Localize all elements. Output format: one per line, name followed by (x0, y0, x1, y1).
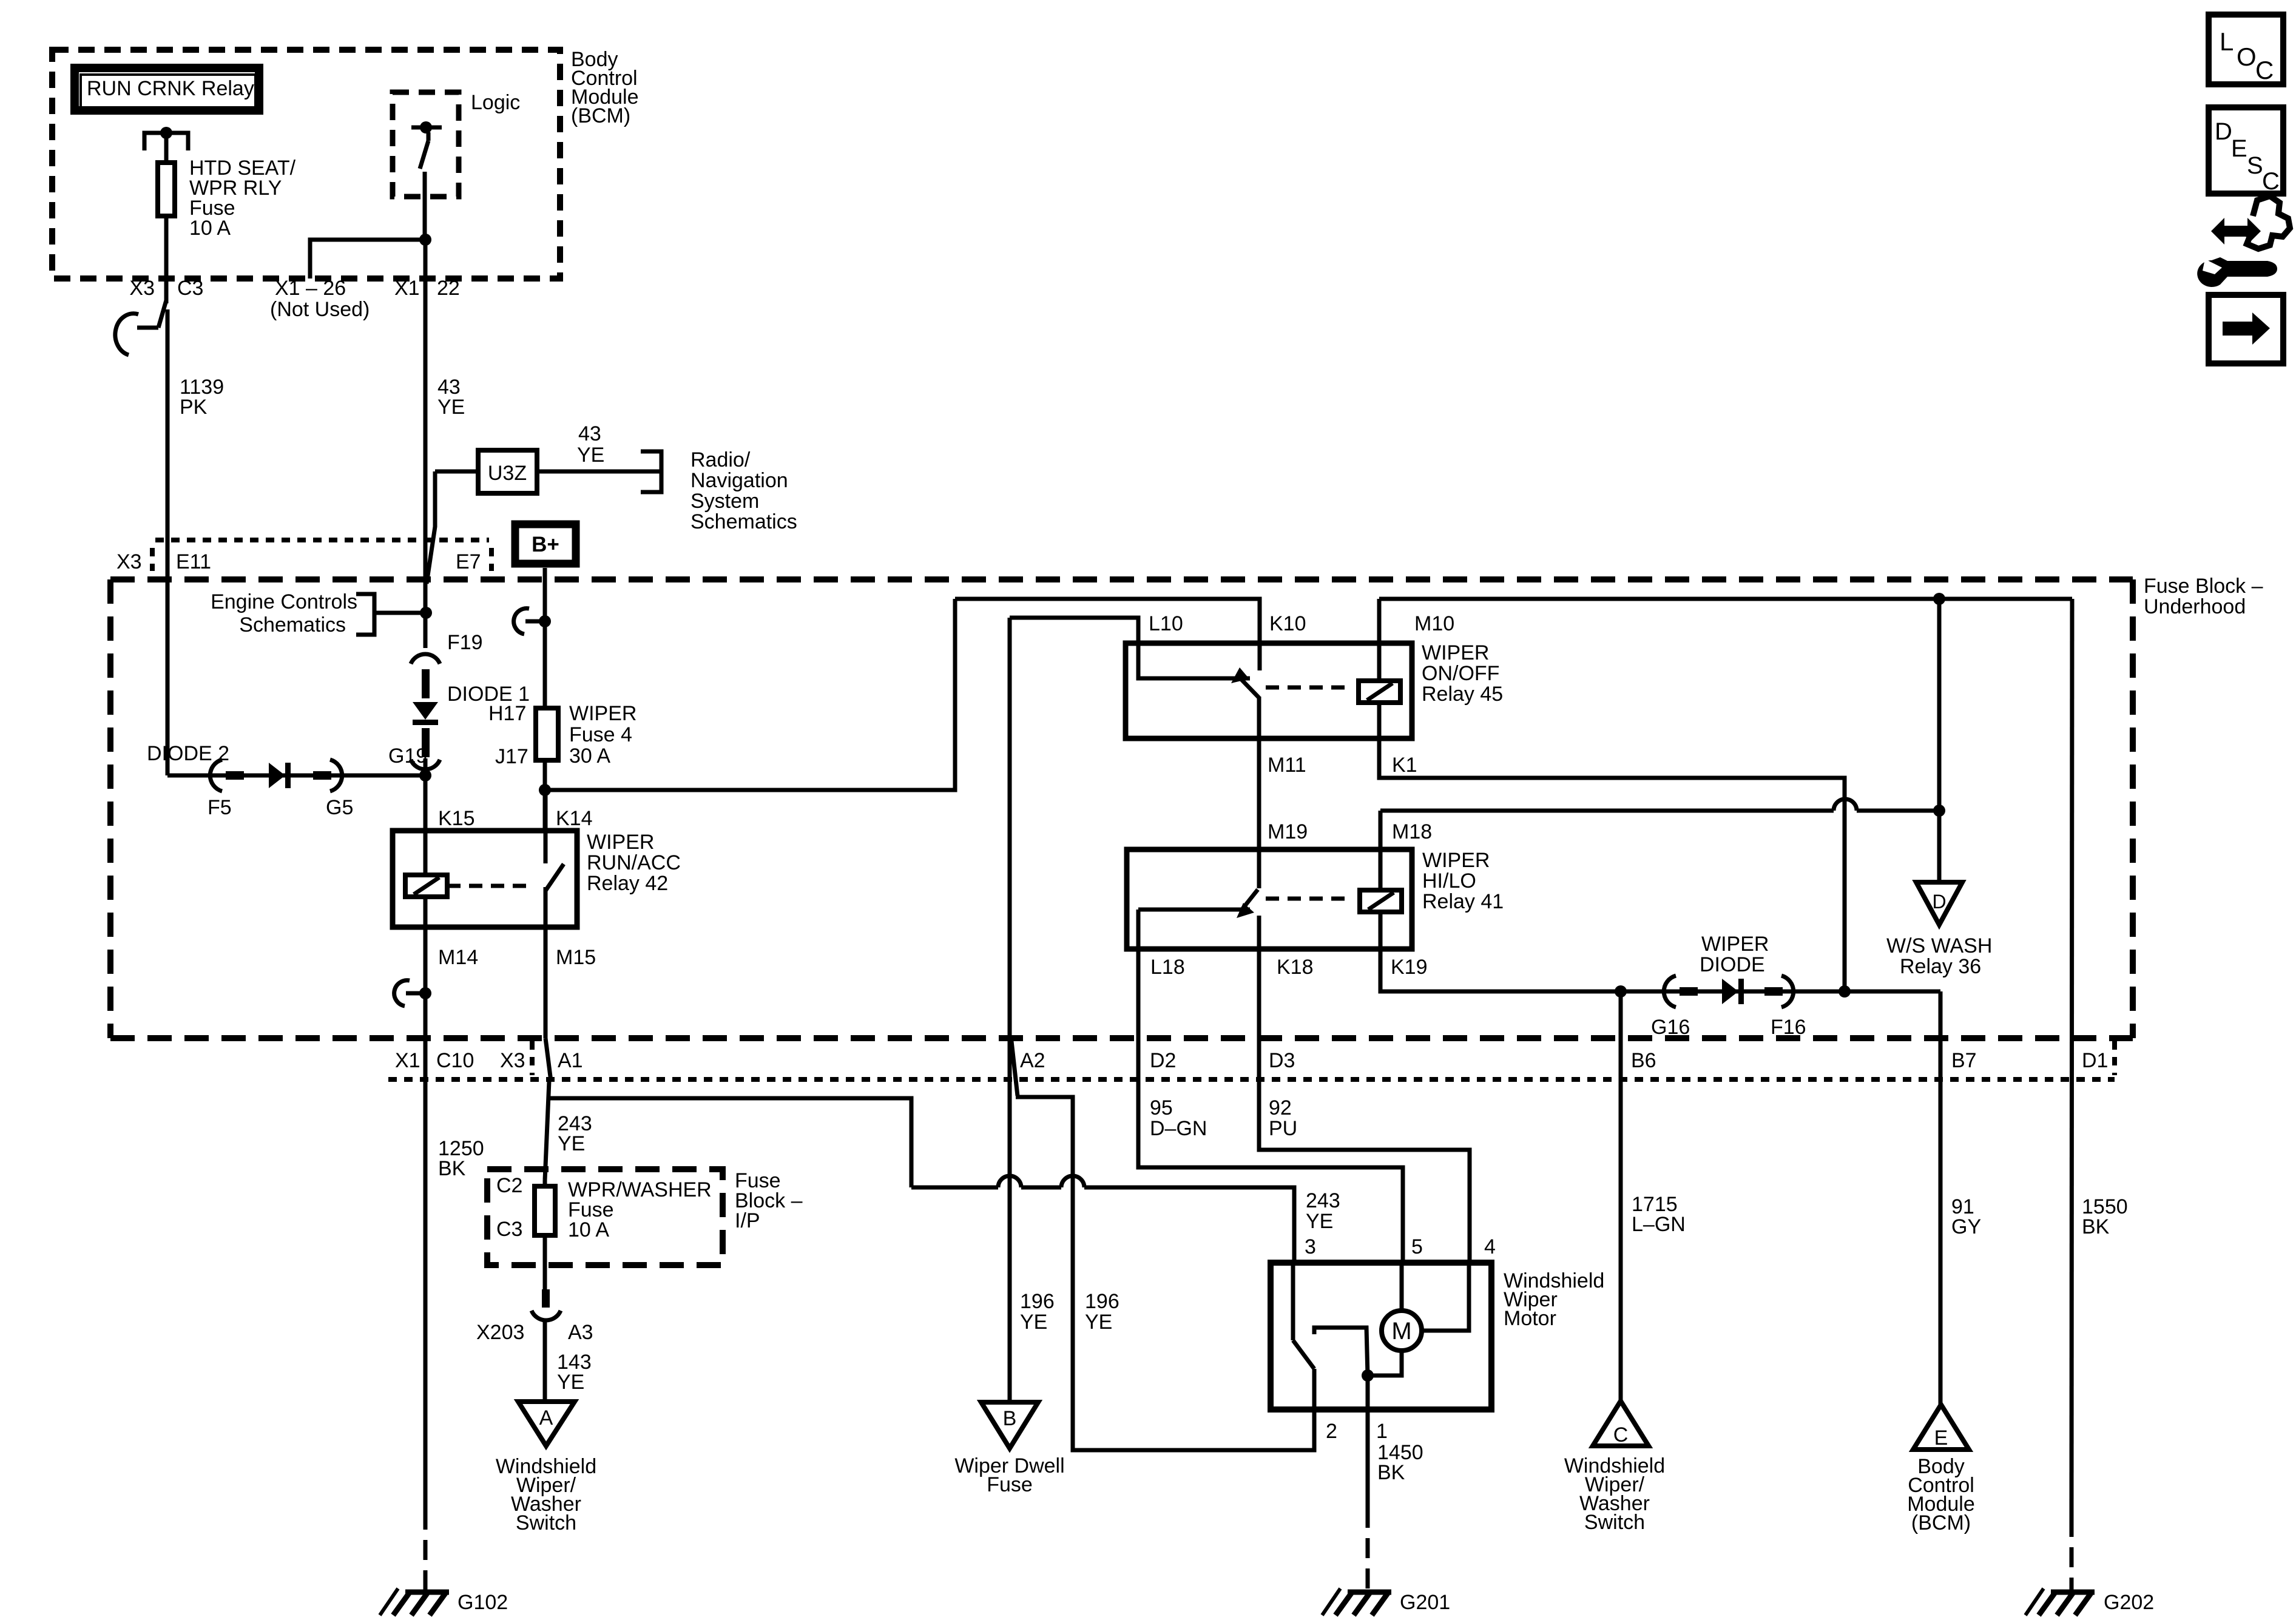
connector X3/C3 symbol (115, 300, 166, 355)
svg-text:K18: K18 (1277, 956, 1314, 979)
node K14 junction (539, 784, 551, 796)
svg-text:M: M (1391, 1318, 1411, 1345)
node A triangle: Windshield Wiper/Washer Switch (496, 1402, 596, 1534)
svg-text:M15: M15 (556, 946, 596, 969)
svg-text:WIPER: WIPER (587, 831, 654, 854)
svg-text:C3: C3 (177, 277, 203, 300)
svg-text:(BCM): (BCM) (1911, 1511, 1971, 1534)
BCM dashed box (52, 50, 560, 279)
svg-text:A1: A1 (558, 1049, 583, 1072)
svg-text:C10: C10 (436, 1049, 474, 1072)
svg-text:L10: L10 (1149, 612, 1183, 635)
node X1-26 branch wire (not used) (310, 234, 431, 279)
wire M11/M19 between relays (1257, 697, 1261, 888)
svg-text:G16: G16 (1651, 1016, 1690, 1039)
svg-text:W/S WASH: W/S WASH (1886, 934, 1992, 957)
BCM label (571, 48, 639, 127)
svg-text:30 A: 30 A (569, 744, 610, 768)
svg-text:DIODE 2: DIODE 2 (147, 742, 229, 765)
svg-text:WIPER: WIPER (1422, 641, 1489, 664)
wire A1 to fuse block IP (545, 1038, 911, 1187)
wire B7 drop (1939, 991, 1943, 1405)
svg-text:YE: YE (577, 444, 604, 467)
motor park switch (1293, 1263, 1314, 1409)
icon DESC box (2209, 107, 2283, 195)
svg-text:A2: A2 (1020, 1049, 1045, 1072)
svg-text:X1: X1 (394, 277, 420, 300)
svg-text:G102: G102 (458, 1591, 508, 1614)
svg-text:4: 4 (1484, 1235, 1496, 1258)
svg-text:243: 243 (1306, 1189, 1340, 1212)
wire K18 down to D3 (1259, 949, 1470, 1263)
svg-text:X1 – 26: X1 – 26 (275, 277, 346, 300)
svg-text:K15: K15 (438, 807, 475, 830)
svg-text:D: D (2215, 118, 2232, 145)
svg-text:Motor: Motor (1504, 1307, 1556, 1330)
relay 42 coil (405, 875, 534, 897)
svg-text:5: 5 (1411, 1235, 1423, 1258)
wire M18 horizontal with hop over K1 riser (1380, 799, 1939, 890)
svg-text:10 A: 10 A (189, 217, 231, 240)
relay 42 switch (545, 790, 564, 927)
relay U41: WIPER HI/LO Relay 41 (1127, 849, 1504, 949)
svg-text:C3: C3 (496, 1218, 522, 1241)
svg-text:S: S (2247, 152, 2263, 179)
relay 41 coil (1266, 890, 1402, 912)
B+ bold box (515, 524, 576, 564)
Engine Controls Schematics reference (211, 590, 426, 636)
svg-text:BK: BK (2082, 1215, 2110, 1238)
svg-text:A3: A3 (568, 1321, 593, 1344)
svg-text:X1: X1 (395, 1049, 420, 1072)
node E triangle: Body Control Module (1907, 1405, 1975, 1534)
svg-text:Switch: Switch (516, 1511, 576, 1534)
svg-text:M18: M18 (1392, 820, 1432, 843)
svg-text:Logic: Logic (471, 91, 520, 114)
svg-text:G5: G5 (326, 796, 353, 819)
svg-text:RUN/ACC: RUN/ACC (587, 851, 681, 874)
Fuse Block - I/P dashed box (487, 1169, 723, 1265)
svg-text:92: 92 (1269, 1096, 1292, 1119)
bus fused B+ feed (955, 599, 1260, 670)
wire D1 drop from bus (2071, 599, 2072, 1517)
svg-text:Fuse 4: Fuse 4 (569, 723, 632, 746)
svg-text:L: L (2220, 27, 2234, 56)
svg-text:YE: YE (558, 1132, 585, 1155)
bracket to Radio/Navigation (641, 451, 661, 492)
svg-text:F19: F19 (447, 631, 483, 654)
wire 1139 PK from fuse down (164, 218, 169, 303)
svg-text:K19: K19 (1391, 956, 1428, 979)
motor box: Windshield Wiper Motor (1271, 1263, 1604, 1409)
connector X203/A3 symbol (532, 1289, 561, 1402)
svg-text:E: E (2231, 135, 2247, 162)
svg-text:G201: G201 (1400, 1591, 1450, 1614)
node ground bus junction (1933, 593, 1945, 605)
svg-text:WIPER: WIPER (1701, 933, 1769, 956)
svg-text:PK: PK (180, 396, 208, 419)
wire continues (166, 309, 170, 775)
svg-text:BK: BK (1377, 1461, 1405, 1484)
wire 43 YE from logic down (424, 240, 428, 648)
wire 243 YE run to motor pin 3 with hops (911, 1176, 1294, 1263)
svg-text:C2: C2 (496, 1174, 522, 1197)
svg-text:Fuse Block –: Fuse Block – (2144, 575, 2263, 598)
wire M10 from bus to coil (1377, 599, 1382, 681)
svg-text:YE: YE (437, 396, 465, 419)
svg-text:O: O (2237, 42, 2257, 71)
svg-text:L–GN: L–GN (1632, 1213, 1686, 1236)
connector row X3/E11 dotted line (152, 540, 491, 571)
fuse WPR/WASHER Fuse 10A (496, 1174, 712, 1289)
wire from fuse to K14 junction (543, 763, 547, 831)
svg-text:Fuse: Fuse (987, 1473, 1033, 1496)
svg-text:Relay 36: Relay 36 (1900, 955, 1981, 978)
svg-text:GY: GY (1951, 1215, 1981, 1238)
fuse WIPER Fuse 4 30A (488, 702, 636, 768)
relay 45 switch blade (1231, 667, 1259, 698)
relay 45 coil (1266, 681, 1400, 703)
svg-text:BK: BK (438, 1157, 466, 1180)
wire K19 from coil to wiper diode row (1380, 912, 1621, 991)
svg-text:A: A (539, 1406, 553, 1430)
icon wrench/panel (2197, 196, 2290, 287)
svg-text:Underhood: Underhood (2144, 595, 2246, 618)
svg-text:Navigation: Navigation (690, 469, 788, 492)
svg-text:M19: M19 (1268, 820, 1308, 843)
svg-text:ON/OFF: ON/OFF (1422, 662, 1499, 685)
Logic dashed box (393, 92, 459, 197)
logic switch (411, 121, 442, 240)
svg-text:HI/LO: HI/LO (1422, 869, 1476, 893)
svg-text:YE: YE (1085, 1311, 1112, 1334)
wire 1550 BK to G202 (2070, 1517, 2074, 1590)
relay K: RUN CRNK Relay bold box (75, 68, 259, 110)
wire K1 from coil to right riser (1379, 703, 1845, 991)
svg-text:YE: YE (1306, 1210, 1333, 1233)
svg-text:E11: E11 (176, 550, 211, 573)
node junction on 43YE wire (420, 607, 432, 619)
splice symbol on M14 wire (394, 981, 431, 1006)
wire M15 down to A1 (544, 927, 548, 1038)
icon arrow box (2209, 295, 2283, 363)
svg-text:RUN CRNK Relay: RUN CRNK Relay (87, 77, 254, 100)
svg-text:F5: F5 (208, 796, 232, 819)
svg-text:10 A: 10 A (568, 1218, 609, 1241)
ground G201 (1322, 1588, 1450, 1615)
svg-text:M10: M10 (1414, 612, 1454, 635)
wire U3Z branch (427, 471, 435, 584)
wire B+ down (543, 568, 547, 708)
splice symbol on B+ wire (514, 609, 551, 634)
svg-text:X203: X203 (476, 1321, 524, 1344)
svg-text:Schematics: Schematics (239, 613, 346, 636)
svg-text:YE: YE (557, 1371, 584, 1394)
svg-text:(Not Used): (Not Used) (270, 298, 370, 321)
svg-text:196: 196 (1085, 1290, 1119, 1313)
node C triangle: Windshield Wiper/Washer Switch (1564, 1401, 1665, 1534)
svg-text:3: 3 (1305, 1235, 1316, 1258)
svg-text:L18: L18 (1150, 956, 1185, 979)
svg-text:D: D (1932, 891, 1946, 913)
wire W/S wash relay drop (1937, 599, 1942, 882)
svg-text:Relay 42: Relay 42 (587, 872, 668, 895)
svg-text:K14: K14 (556, 807, 593, 830)
svg-text:B+: B+ (532, 533, 559, 556)
wire B6 drop (1619, 991, 1623, 1401)
relay 41 switch (1138, 890, 1259, 949)
svg-text:B6: B6 (1631, 1049, 1656, 1072)
svg-text:C: C (1613, 1423, 1629, 1447)
svg-text:C: C (2255, 56, 2274, 84)
node B6 junction (1615, 985, 1627, 998)
svg-text:43: 43 (578, 422, 601, 445)
svg-text:196: 196 (1020, 1290, 1055, 1313)
svg-text:H17: H17 (488, 702, 526, 725)
svg-text:G202: G202 (2104, 1591, 2154, 1614)
svg-text:E: E (1934, 1426, 1948, 1450)
node G19/K15 junction (419, 769, 431, 781)
relay U42: WIPER RUN/ACC Relay 42 (393, 831, 681, 927)
svg-text:D–GN: D–GN (1150, 1117, 1207, 1140)
svg-text:J17: J17 (495, 745, 528, 768)
ground G102 (380, 1588, 508, 1615)
wire 196 YE (dwell) from relay45 switch down (1008, 618, 1012, 1402)
svg-text:D3: D3 (1269, 1049, 1295, 1072)
svg-text:B7: B7 (1951, 1049, 1977, 1072)
svg-text:M11: M11 (1268, 754, 1306, 777)
svg-text:95: 95 (1150, 1096, 1173, 1119)
U3Z box (478, 450, 537, 493)
svg-text:System: System (690, 490, 759, 513)
relay U45: WIPER ON/OFF Relay 45 (1126, 641, 1503, 738)
svg-text:D2: D2 (1150, 1049, 1176, 1072)
diode WIPER DIODE assembly on wire y=1634 (1621, 976, 1940, 1007)
wire M14 down (424, 897, 428, 1038)
svg-text:WIPER: WIPER (569, 702, 636, 725)
svg-text:B: B (1003, 1407, 1017, 1430)
svg-text:Switch: Switch (1584, 1511, 1645, 1534)
svg-text:WIPER: WIPER (1422, 849, 1490, 872)
bus ground side (1379, 597, 2072, 601)
svg-text:D1: D1 (2082, 1049, 2108, 1072)
wire 1450 BK to G201 (1366, 1409, 1370, 1590)
svg-text:F16: F16 (1771, 1016, 1806, 1039)
svg-text:K1: K1 (1392, 754, 1417, 777)
wire L10 loop into relay 45 switch (1010, 618, 1250, 678)
wire L18 down to D2 (1138, 910, 1403, 1263)
svg-text:(BCM): (BCM) (571, 104, 630, 127)
svg-text:PU: PU (1269, 1117, 1297, 1140)
svg-text:X3: X3 (500, 1049, 525, 1072)
svg-text:U3Z: U3Z (488, 462, 527, 485)
svg-text:Engine Controls: Engine Controls (211, 590, 357, 613)
icon LOC box (2209, 15, 2283, 84)
svg-text:YE: YE (1020, 1311, 1047, 1334)
motor internal wiring (1314, 1263, 1469, 1409)
wire 1250 BK to G102 (424, 1038, 428, 1590)
fuse HTD SEAT/WPR RLY 10A (158, 133, 296, 240)
node F16/B7 junction (1838, 985, 1851, 998)
svg-text:E7: E7 (456, 550, 481, 573)
motor M1 circle (1382, 1311, 1422, 1351)
svg-text:2: 2 (1326, 1420, 1337, 1443)
node B triangle: Wiper Dwell Fuse (954, 1402, 1064, 1496)
svg-text:I/P: I/P (735, 1209, 760, 1232)
node D triangle W/S WASH Relay 36 (1886, 882, 1992, 978)
svg-text:Radio/: Radio/ (690, 448, 751, 471)
wire K15 down into relay 42 (424, 758, 428, 875)
diode DIODE 1 assembly on wire x=701 (411, 654, 440, 769)
svg-text:Relay 45: Relay 45 (1422, 683, 1503, 706)
svg-text:C: C (2262, 168, 2280, 195)
Fuse Block - Underhood dashed box (110, 579, 2133, 1038)
wire to bus riser (545, 599, 955, 790)
svg-text:22: 22 (437, 277, 460, 300)
svg-text:X3: X3 (129, 277, 155, 300)
node M18 junction (1933, 805, 1945, 817)
svg-text:Relay 41: Relay 41 (1422, 890, 1504, 913)
svg-text:X3: X3 (116, 550, 142, 573)
svg-text:K10: K10 (1269, 612, 1306, 635)
connector row: fuse block bottom dotted line (388, 1077, 2115, 1082)
svg-text:G19: G19 (388, 744, 427, 768)
svg-text:DIODE: DIODE (1700, 953, 1765, 976)
diode DIODE 2 assembly on horizontal wire y=1278 (167, 760, 425, 791)
svg-text:M14: M14 (438, 946, 478, 969)
svg-text:1: 1 (1376, 1420, 1388, 1443)
connector A2 branch stub (1011, 1041, 1314, 1450)
relay coil terminal symbol (144, 127, 188, 150)
ground G202 (2025, 1588, 2154, 1615)
svg-text:Schematics: Schematics (690, 510, 797, 533)
